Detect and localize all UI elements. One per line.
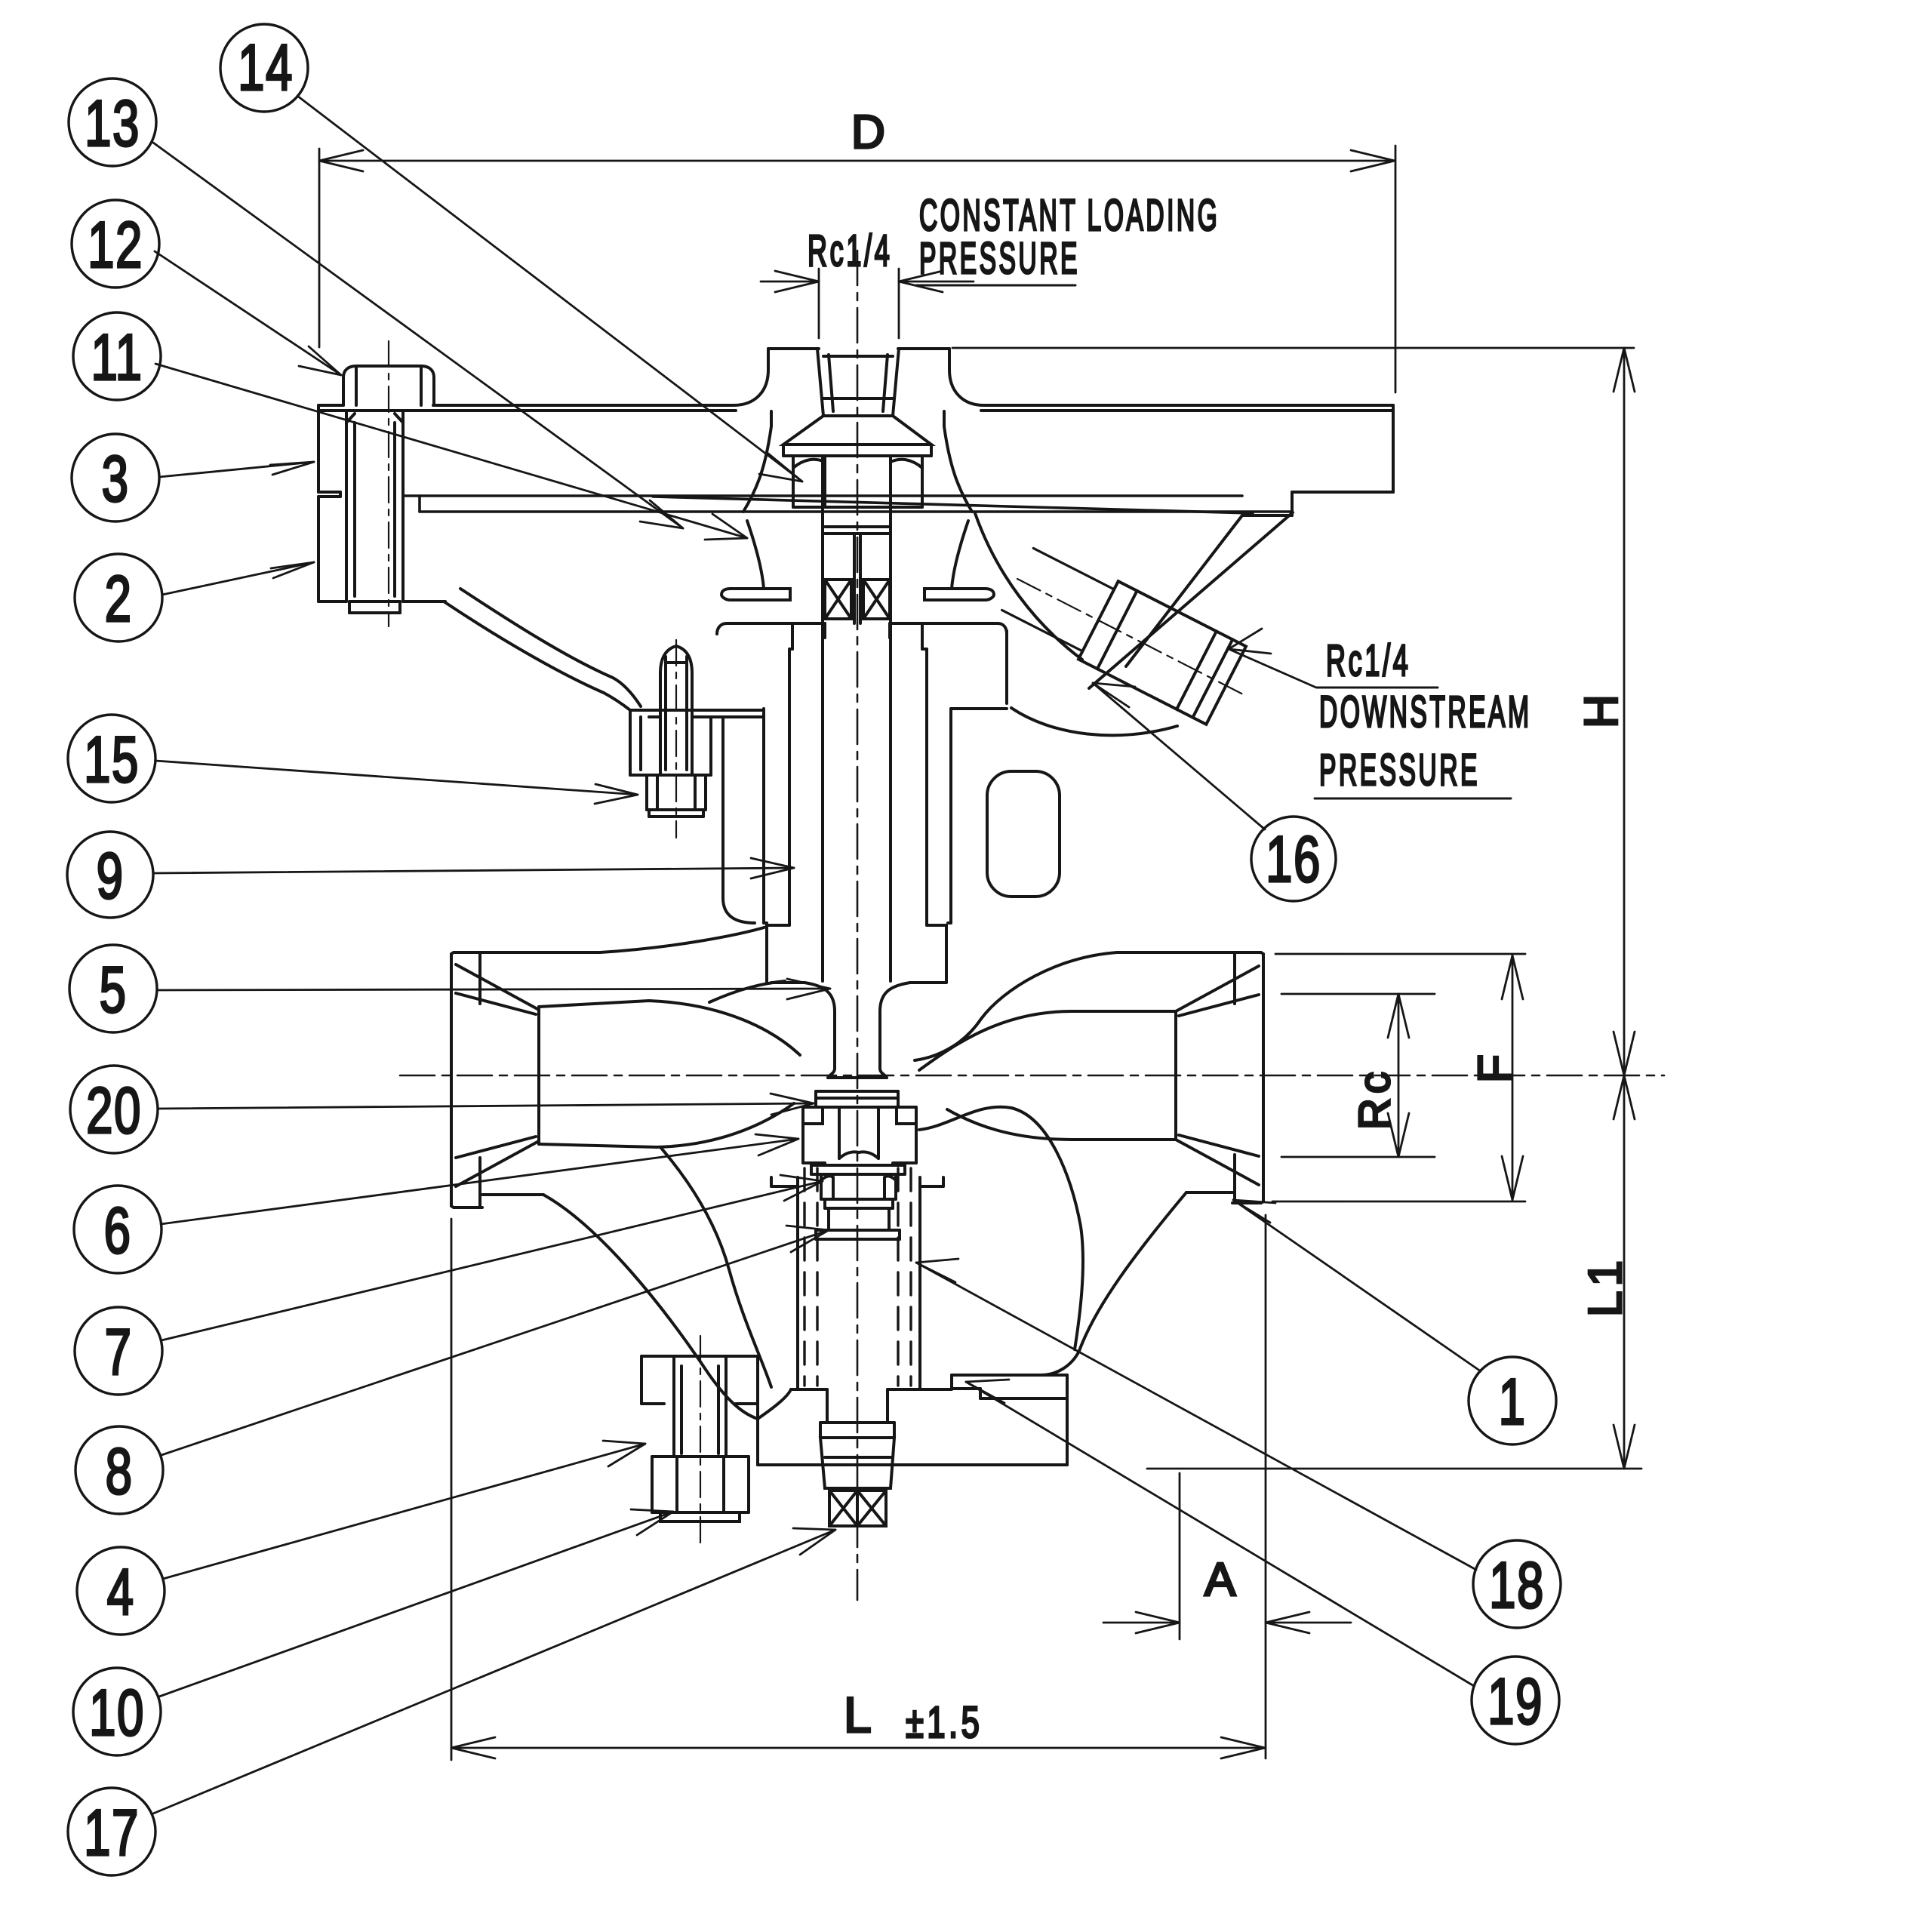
label Rc1/4 top (808, 226, 893, 275)
boss passage hidden lines (1002, 548, 1115, 651)
balloon 9 (67, 832, 153, 918)
bracket (641, 1356, 758, 1465)
svg-text:Rc1/4: Rc1/4 (1326, 636, 1411, 685)
balloon 7 (75, 1307, 162, 1395)
balloon 1 (1469, 1357, 1556, 1444)
svg-text:F: F (1469, 1050, 1521, 1083)
seat retainer block (items 20/6) (803, 1107, 916, 1163)
balloon 20 (70, 1066, 158, 1153)
svg-text:9: 9 (97, 841, 125, 912)
dim H line (952, 348, 1641, 1469)
bell lower ring (721, 589, 994, 600)
leader 8 (162, 1226, 829, 1455)
hex gland nut (821, 1174, 896, 1208)
chamber walls (771, 1177, 943, 1389)
inlet flange left (451, 952, 539, 1207)
svg-text:12: 12 (88, 210, 143, 281)
bolt centerline top-left (388, 341, 389, 626)
leader 2 (162, 562, 314, 595)
leader 16 (1093, 683, 1265, 829)
dim F line (1272, 954, 1525, 1201)
svg-text:3: 3 (102, 444, 130, 515)
top cover plate outline (318, 349, 1393, 601)
leader 13 (153, 143, 683, 528)
angled Rc1/4 boss (1078, 581, 1246, 724)
bell flange right diagonals (975, 512, 1293, 688)
balloon 13 (69, 78, 156, 166)
balloon 16 (1251, 817, 1336, 901)
gland neck + washer (816, 1208, 900, 1239)
leader 15 (155, 761, 638, 804)
balloon 2 (75, 554, 162, 641)
spring case neck walls (743, 411, 972, 589)
leader 19 (966, 1380, 1474, 1686)
leader 11 (155, 364, 747, 540)
balloon 3 (72, 434, 159, 521)
vertical centerline (857, 251, 859, 1600)
balloon 19 (1472, 1657, 1559, 1744)
outlet flange right (1176, 952, 1263, 1203)
balloon 18 (1473, 1540, 1561, 1628)
cage dashed lines (item 18) (804, 1168, 911, 1386)
dim Rc1/4 top (761, 269, 974, 338)
balloon 5 (69, 945, 157, 1032)
svg-text:H: H (1576, 690, 1628, 728)
leader 14 (297, 96, 802, 481)
svg-text:4: 4 (107, 1557, 135, 1629)
leader 3 (159, 462, 314, 477)
leader for Rc1/4 downstream (1229, 629, 1316, 688)
svg-text:1: 1 (1499, 1367, 1527, 1438)
label Rc (1350, 1067, 1399, 1130)
bolt centerline bottom-left (700, 1336, 701, 1547)
lock washer (811, 1165, 905, 1174)
balloon 11 (73, 312, 161, 400)
svg-text:6: 6 (104, 1195, 132, 1267)
svg-text:20: 20 (86, 1075, 142, 1147)
bottom packing X boxes (item 17) (829, 1491, 886, 1526)
pilot top plate (717, 623, 1007, 634)
horizontal pipe centerline (400, 1075, 1664, 1077)
svg-text:DOWNSTREAM: DOWNSTREAM (1319, 688, 1531, 737)
svg-text:Rc1/4: Rc1/4 (808, 226, 893, 275)
svg-text:7: 7 (105, 1317, 133, 1389)
svg-text:14: 14 (238, 32, 294, 104)
leader 5 (157, 979, 830, 999)
bolt 15 (647, 646, 706, 817)
balloon 17 (68, 1788, 155, 1875)
svg-text:10: 10 (89, 1678, 145, 1749)
svg-text:L1: L1 (1580, 1256, 1632, 1317)
svg-text:19: 19 (1487, 1666, 1543, 1738)
bottom cap neck (820, 1389, 894, 1488)
leader 12 (155, 251, 341, 375)
top packing X boxes (825, 580, 890, 619)
bolt 12 shank (346, 411, 403, 613)
svg-text:15: 15 (84, 724, 140, 796)
balloon 12 (72, 200, 159, 288)
left flange rings (318, 492, 445, 601)
svg-text:L: L (844, 1687, 876, 1743)
bell outer left (444, 589, 767, 923)
inlet arm top/bottom (482, 927, 767, 1419)
washer under nut (825, 527, 891, 623)
bolt 12 hex head (343, 366, 434, 405)
svg-text:16: 16 (1266, 824, 1321, 896)
balloon 4 (77, 1547, 165, 1635)
svg-text:8: 8 (106, 1436, 134, 1508)
dim L line (451, 1219, 1265, 1760)
dim A (1103, 1215, 1351, 1758)
bolt 4 head (652, 1457, 749, 1521)
svg-text:13: 13 (85, 88, 140, 160)
svg-text:5: 5 (100, 955, 128, 1026)
leader 17 (153, 1528, 835, 1814)
leader 4 (163, 1441, 645, 1579)
svg-text:11: 11 (91, 322, 143, 394)
dim Rc line (1281, 994, 1435, 1157)
leader 20 (158, 1094, 814, 1115)
plug top disc (816, 1091, 898, 1107)
balloon 8 (75, 1426, 163, 1514)
window right (987, 771, 1060, 897)
leader 6 (161, 1134, 798, 1224)
svg-text:±1.5: ±1.5 (906, 1698, 983, 1746)
bottom plate (758, 1375, 1067, 1465)
outlet arm (915, 952, 1232, 1351)
diaphragm flange joint lines (403, 496, 1292, 513)
body inner cavity left (539, 981, 800, 1387)
leader 18 (916, 1259, 1476, 1570)
top nipple fitting (783, 349, 931, 456)
svg-text:Rc: Rc (1350, 1067, 1399, 1130)
bolt 4 shank (674, 1356, 726, 1457)
dim D line (319, 146, 1395, 392)
balloon 6 (74, 1186, 162, 1273)
boss centerline angled (1017, 579, 1246, 696)
stem rod (823, 456, 891, 981)
balloon 14 (220, 24, 308, 112)
balloon 15 (68, 715, 155, 802)
svg-text:CONSTANT LOADING: CONSTANT LOADING (919, 192, 1220, 241)
bell outer right (948, 631, 1177, 923)
balloon 10 (73, 1668, 161, 1755)
svg-text:PRESSURE: PRESSURE (919, 235, 1080, 284)
bracket for bolt 15 (630, 710, 764, 923)
svg-text:A: A (1204, 1554, 1240, 1606)
leader 9 (153, 858, 794, 878)
stem guide tube (767, 623, 946, 983)
diaphragm nut (item 14) (793, 456, 922, 507)
svg-text:D: D (851, 106, 890, 158)
svg-text:PRESSURE: PRESSURE (1319, 746, 1480, 795)
svg-text:18: 18 (1489, 1550, 1545, 1622)
bonnet collar bottom + neck (771, 983, 946, 1078)
svg-text:17: 17 (84, 1798, 140, 1869)
leader 7 (162, 1175, 823, 1340)
leader 1 (1233, 1200, 1481, 1371)
label CONSTANT LOADING PRESSURE (919, 192, 1220, 241)
bolt centerline item15 (675, 640, 677, 838)
svg-text:2: 2 (105, 564, 133, 635)
label Rc1/4 downstream (1326, 636, 1411, 685)
leader 10 (159, 1509, 673, 1697)
